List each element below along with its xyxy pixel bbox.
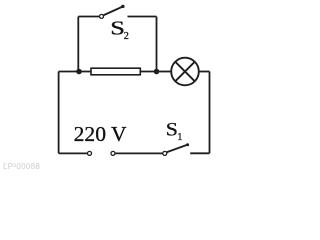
switch S1 blade (open, tilted up-right): [166, 145, 188, 153]
wire: bottom-right segment (corner to switch S1 gap): [190, 152, 209, 154]
svg-text:1: 1: [177, 132, 182, 143]
wire: bottom-left segment (left terminal to corner): [59, 152, 88, 154]
wire: lamp to top-right corner: [199, 71, 210, 73]
svg-text:S: S: [166, 120, 178, 140]
wire: right vertical side of main loop: [209, 72, 211, 154]
node: junction dot left (top branch tap): [76, 69, 82, 75]
wire: left vertical side of main loop: [58, 72, 60, 154]
switch S2 blade (open, tilted up-right): [104, 6, 124, 15]
wire: top branch left vertical (junction up): [77, 17, 79, 72]
switch S2 blade tip blob: [121, 5, 124, 8]
svg-text:220 V: 220 V: [74, 122, 127, 146]
resistor R (unlabeled rectangle): [91, 68, 140, 75]
wire: top branch top-left horizontal to switch S2: [78, 16, 99, 18]
switch S1 blade tip blob: [186, 143, 189, 146]
wire: top branch right vertical (down to junction): [156, 17, 158, 72]
wire: bottom segment between source terminal and switch S1: [115, 152, 162, 154]
svg-text:ĽP²00088: ĽP²00088: [3, 162, 40, 171]
svg-text:2: 2: [124, 31, 129, 42]
node: junction dot right (top branch tap): [154, 69, 160, 75]
source terminal circle right (220 V supply): [111, 151, 115, 155]
wire: top branch top-right horizontal from switch gap: [128, 16, 157, 18]
switch S1 pivot terminal circle: [163, 151, 167, 155]
wire: right junction to lamp: [157, 71, 172, 73]
wire: resistor to right junction: [140, 71, 156, 73]
source terminal circle left (220 V supply): [88, 151, 92, 155]
switch S2 pivot terminal circle: [100, 14, 104, 18]
lamp L (circle with X): [171, 58, 199, 86]
wire: top-left horizontal of main loop (corner to resistor): [59, 71, 91, 73]
